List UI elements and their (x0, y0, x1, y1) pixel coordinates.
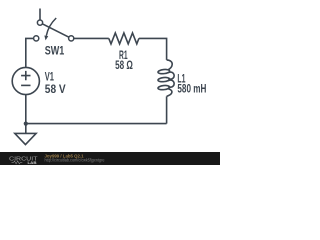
svg-text:V1: V1 (45, 72, 55, 84)
resistor R1 zigzag (109, 33, 139, 44)
switch SW1 top throw terminal circle (37, 20, 42, 25)
inductor L1 coil (167, 60, 173, 70)
switch SW1 lever (42, 24, 69, 37)
V1 minus sign (21, 84, 30, 86)
watermark bar (0, 152, 220, 165)
switch SW1 top throw stub wire (39, 9, 41, 20)
wire R1 to corner (139, 38, 167, 60)
ground stem (25, 124, 27, 134)
voltage source V1 (12, 67, 39, 94)
switch SW1 left throw terminal circle (34, 36, 39, 41)
svg-text:LAB: LAB (28, 161, 37, 165)
junction dot node (24, 122, 28, 126)
wire from left throw to V1 (26, 38, 34, 67)
switch SW1 actuation arrow (46, 18, 56, 36)
svg-text:58 V: 58 V (45, 84, 66, 96)
ground symbol triangle (15, 133, 36, 144)
bottom wire (26, 123, 167, 125)
svg-text:580 mH: 580 mH (177, 84, 206, 96)
logo zigzag (12, 161, 23, 164)
svg-text:SW1: SW1 (45, 45, 65, 57)
wire L1 to bottom corner (166, 96, 168, 123)
V1 plus sign (21, 71, 30, 80)
wire pole to R1 (74, 37, 109, 39)
svg-text:58 Ω: 58 Ω (115, 60, 133, 72)
svg-text:http://circuitlab.com/c/cwk5fj: http://circuitlab.com/c/cwk5fjgxntgre (45, 158, 105, 163)
switch SW1 pole terminal circle (69, 36, 74, 41)
wire V1 bottom to ground node (25, 95, 27, 124)
